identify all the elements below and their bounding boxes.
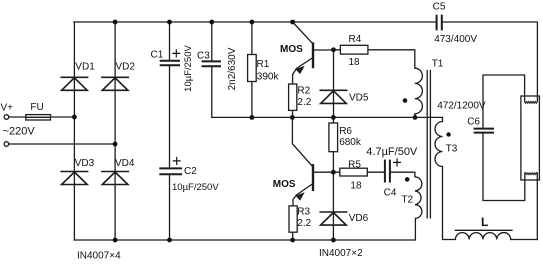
svg-text:FU: FU xyxy=(30,102,43,113)
svg-text:R5: R5 xyxy=(348,160,361,171)
svg-text:+: + xyxy=(172,45,182,63)
svg-text:10µF/250V: 10µF/250V xyxy=(183,45,194,92)
svg-text:R6: R6 xyxy=(339,126,352,137)
svg-text:T2: T2 xyxy=(401,194,413,205)
svg-text:R2: R2 xyxy=(297,86,310,97)
svg-text:C2: C2 xyxy=(184,166,197,177)
svg-text:IN4007×4: IN4007×4 xyxy=(77,250,121,261)
svg-text:390k: 390k xyxy=(257,72,280,83)
svg-text:473/400V: 473/400V xyxy=(434,34,477,45)
svg-text:18: 18 xyxy=(349,57,361,68)
svg-text:+: + xyxy=(172,152,182,170)
svg-text:MOS: MOS xyxy=(273,179,296,190)
svg-text:VD6: VD6 xyxy=(349,213,369,224)
svg-text:VD2: VD2 xyxy=(116,61,136,72)
svg-text:VD5: VD5 xyxy=(349,92,369,103)
svg-text:C6: C6 xyxy=(467,117,480,128)
svg-text:C5: C5 xyxy=(433,2,446,13)
svg-text:VD4: VD4 xyxy=(115,158,135,169)
svg-text:R1: R1 xyxy=(257,59,270,70)
svg-text:680k: 680k xyxy=(339,137,362,148)
svg-text:V+: V+ xyxy=(1,103,14,114)
svg-text:R3: R3 xyxy=(297,207,310,218)
svg-text:2.2: 2.2 xyxy=(297,218,311,229)
svg-text:T3: T3 xyxy=(446,144,458,155)
svg-text:18: 18 xyxy=(350,180,362,191)
svg-text:L: L xyxy=(481,215,488,229)
svg-text:2n2/630V: 2n2/630V xyxy=(227,47,238,90)
svg-text:IN4007×2: IN4007×2 xyxy=(319,248,363,259)
svg-text:472/1200V: 472/1200V xyxy=(437,101,486,112)
svg-text:2.2: 2.2 xyxy=(297,97,311,108)
svg-text:+: + xyxy=(392,154,402,172)
svg-text:VD1: VD1 xyxy=(75,61,95,72)
svg-text:VD3: VD3 xyxy=(75,158,95,169)
svg-text:MOS: MOS xyxy=(280,44,303,55)
svg-text:10µF/250V: 10µF/250V xyxy=(172,182,219,193)
svg-text:T1: T1 xyxy=(432,58,444,69)
svg-text:C3: C3 xyxy=(197,50,210,61)
svg-text:C1: C1 xyxy=(151,50,164,61)
svg-text:~220V: ~220V xyxy=(3,125,36,137)
svg-text:R4: R4 xyxy=(349,34,362,45)
svg-text:C4: C4 xyxy=(384,187,397,198)
